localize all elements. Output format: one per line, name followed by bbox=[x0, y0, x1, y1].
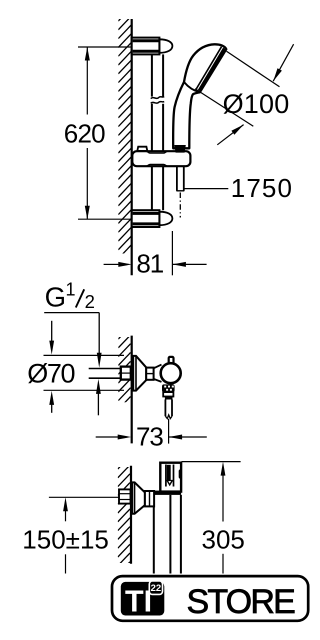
svg-text:Ø70: Ø70 bbox=[27, 358, 74, 388]
outlet pipe stub (middle figure) bbox=[165, 400, 172, 419]
dimension 150±15 bbox=[22, 497, 109, 573]
shower hose stub bbox=[176, 166, 184, 191]
TI STORE logo box bbox=[112, 576, 308, 621]
escutcheon cone (middle figure) bbox=[133, 356, 146, 391]
transition to knob bbox=[154, 365, 162, 382]
22 superscript box bbox=[149, 581, 162, 594]
extension line top (305) bbox=[182, 461, 241, 463]
extension line bottom (620) bbox=[78, 218, 131, 220]
valve knob (ball) bbox=[161, 363, 181, 383]
wall hatching (middle figure) bbox=[118, 326, 130, 409]
dimension 81 bbox=[104, 231, 207, 278]
knob top stub bbox=[169, 357, 174, 364]
hose nut under handle bbox=[174, 145, 186, 153]
svg-text:150±15: 150±15 bbox=[22, 525, 109, 555]
up arrow under pipe (G 1/2) bbox=[96, 379, 101, 415]
slider holder on rail bbox=[132, 151, 190, 166]
extension line (150±15) bbox=[49, 496, 119, 498]
escutcheon cone (bottom figure) bbox=[132, 482, 145, 513]
valve neck nut (middle figure) bbox=[146, 368, 153, 380]
shower rail tube bbox=[152, 54, 163, 210]
label G 1/2 bbox=[45, 279, 95, 312]
svg-text:2: 2 bbox=[85, 291, 95, 312]
rail bottom mounting bracket bbox=[132, 210, 173, 227]
pipe connection block (bottom figure) bbox=[160, 463, 181, 492]
dimension 305 bbox=[202, 462, 245, 574]
wall hatching (top figure) bbox=[118, 7, 131, 268]
svg-text:Ø100: Ø100 bbox=[223, 89, 290, 119]
hand shower head crease bbox=[184, 82, 200, 92]
dimension 620 bbox=[64, 47, 105, 219]
svg-text:1: 1 bbox=[66, 279, 76, 299]
extension line top (620) bbox=[78, 46, 131, 48]
pipe nut at wall (middle figure) bbox=[121, 367, 131, 380]
svg-text:81: 81 bbox=[136, 248, 163, 278]
svg-text:STORE: STORE bbox=[186, 583, 295, 621]
rail top mounting bracket bbox=[132, 38, 173, 55]
svg-text:73: 73 bbox=[136, 421, 163, 451]
vertical pipes (bottom figure) bbox=[154, 495, 181, 574]
svg-text:620: 620 bbox=[64, 119, 105, 149]
shoulder under block bbox=[153, 491, 182, 495]
leader from G 1/2 to pipe bbox=[44, 313, 101, 368]
hand shower spray face bbox=[197, 47, 223, 90]
dimension Ø100 bbox=[195, 44, 294, 145]
hose collar bbox=[163, 392, 173, 396]
hand shower body and handle bbox=[173, 44, 226, 148]
valve neck nut (bottom figure) bbox=[145, 491, 154, 506]
svg-text:1750: 1750 bbox=[231, 173, 293, 203]
wall line (middle figure) bbox=[131, 336, 133, 444]
leader and label 1750 (hose length) bbox=[184, 173, 293, 203]
svg-text:305: 305 bbox=[202, 524, 245, 554]
TI badge bbox=[121, 582, 165, 616]
knurled hose nut (middle figure) bbox=[162, 384, 175, 392]
supply pipe (front view) bbox=[89, 369, 122, 379]
slider lock button bbox=[137, 147, 147, 151]
hose dark band bbox=[165, 397, 173, 400]
hose centerline (dash-dot) bbox=[179, 193, 181, 218]
rail tube break symbol bbox=[151, 97, 164, 104]
dimension Ø70 bbox=[27, 321, 124, 413]
wall line (bottom figure) bbox=[130, 466, 132, 564]
svg-text:TI: TI bbox=[125, 584, 152, 618]
svg-text:22: 22 bbox=[151, 583, 162, 594]
wall line (top figure) bbox=[131, 19, 133, 275]
svg-text:G: G bbox=[45, 282, 66, 313]
dimension 73 bbox=[96, 419, 207, 452]
in-wall supply nut (bottom figure) bbox=[119, 489, 131, 503]
wall hatching (bottom figure) bbox=[118, 456, 130, 574]
